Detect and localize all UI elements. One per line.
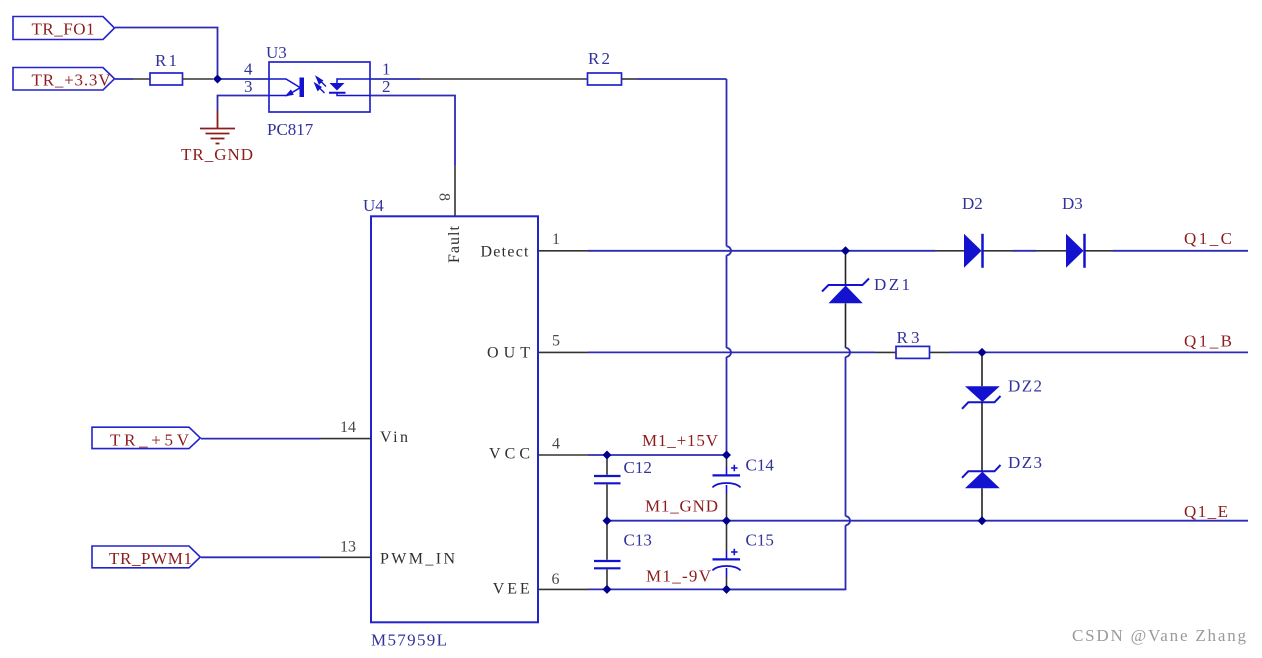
pin stubs U4: [320, 251, 588, 590]
resistor R2: [588, 73, 622, 85]
svg-text:13: 13: [340, 539, 356, 556]
svg-text:TR_PWM1: TR_PWM1: [109, 549, 192, 568]
svg-text:1: 1: [382, 60, 391, 79]
port TR_+5V: [92, 427, 200, 449]
svg-text:6: 6: [552, 571, 560, 588]
svg-text:C13: C13: [624, 531, 652, 550]
wire R1 to junction: [183, 78, 214, 80]
svg-text:M57959L: M57959L: [371, 631, 447, 650]
capacitor C13: [594, 521, 652, 590]
wire TR_PWM1 to PWM_IN: [201, 556, 320, 558]
svg-text:3: 3: [244, 77, 253, 96]
resistor R1: [150, 73, 183, 85]
svg-text:U4: U4: [363, 196, 384, 215]
capacitor C15: [713, 521, 774, 590]
svg-text:1: 1: [552, 231, 560, 248]
zener DZ2: [962, 352, 1042, 408]
zener DZ1: [727, 251, 911, 590]
svg-text:R1: R1: [155, 51, 177, 70]
wire TR_+3.3V to R1: [115, 78, 133, 80]
svg-text:M1_GND: M1_GND: [645, 497, 718, 516]
svg-text:Q1_B: Q1_B: [1184, 332, 1232, 351]
wire U3 pin1 to R2: [370, 78, 420, 80]
svg-text:R3: R3: [897, 328, 920, 347]
svg-text:CSDN @Vane Zhang: CSDN @Vane Zhang: [1072, 626, 1247, 645]
wire R2 vertical to +15V with hops: [727, 79, 732, 455]
svg-text:C15: C15: [746, 531, 774, 550]
svg-text:C12: C12: [624, 458, 652, 477]
svg-text:DZ2: DZ2: [1008, 377, 1042, 396]
svg-text:Q1_E: Q1_E: [1184, 502, 1228, 521]
diode D2: [962, 194, 983, 268]
svg-text:M1_-9V: M1_-9V: [646, 567, 712, 586]
diode D3: [1062, 194, 1085, 268]
svg-text:VEE: VEE: [493, 581, 530, 598]
IC U4: [363, 196, 538, 650]
vcc net wire: [588, 454, 727, 456]
ground TR_GND: [200, 111, 235, 144]
svg-text:DZ1: DZ1: [874, 275, 910, 294]
svg-text:D3: D3: [1062, 194, 1083, 213]
wire TR_FO1 to junction: [115, 28, 218, 80]
svg-text:Vin: Vin: [380, 429, 408, 446]
svg-text:TR_+3.3V: TR_+3.3V: [32, 71, 112, 90]
port TR_FO1: [13, 17, 115, 40]
svg-text:M1_+15V: M1_+15V: [642, 431, 719, 450]
svg-text:14: 14: [340, 419, 356, 436]
wire U3 pin3 to ground: [218, 96, 270, 111]
svg-text:Q1_C: Q1_C: [1184, 229, 1232, 248]
svg-text:D2: D2: [962, 194, 983, 213]
svg-text:TR_FO1: TR_FO1: [32, 20, 95, 39]
U3 photodiode: [337, 79, 370, 83]
zener DZ3: [962, 402, 1042, 520]
port TR_+3.3V: [13, 68, 115, 91]
svg-text:U3: U3: [266, 43, 287, 62]
U3 LED: [269, 79, 300, 96]
port TR_PWM1: [92, 546, 200, 568]
detect net wires: [588, 250, 1248, 252]
capacitor C14: [713, 455, 775, 521]
svg-text:8: 8: [436, 193, 453, 201]
svg-text:4: 4: [552, 436, 560, 453]
resistor R3: [896, 346, 930, 358]
svg-text:TR_GND: TR_GND: [181, 145, 253, 164]
capacitor C12: [594, 455, 652, 521]
wire R2 right: [622, 78, 638, 80]
svg-text:PC817: PC817: [267, 120, 314, 139]
wire U3 pin2 to U4 Fault: [370, 96, 455, 166]
svg-text:PWM_IN: PWM_IN: [380, 551, 455, 568]
svg-text:C14: C14: [746, 456, 775, 475]
svg-text:DZ3: DZ3: [1008, 453, 1042, 472]
svg-text:Detect: Detect: [481, 244, 530, 261]
svg-text:R2: R2: [588, 49, 610, 68]
svg-text:4: 4: [244, 60, 253, 79]
svg-text:OUT: OUT: [487, 345, 530, 362]
svg-text:Fault: Fault: [446, 225, 463, 263]
optocoupler U3: [244, 43, 391, 139]
U3 light arrows: [315, 77, 326, 93]
vee net wire: [588, 588, 846, 590]
svg-text:VCC: VCC: [489, 446, 530, 463]
wire junction to U3 pin4: [218, 78, 270, 80]
out net wires: [588, 351, 1248, 353]
svg-text:5: 5: [552, 333, 560, 350]
gnd net wire: [607, 520, 1248, 522]
wire TR_+5V to Vin: [201, 438, 320, 440]
